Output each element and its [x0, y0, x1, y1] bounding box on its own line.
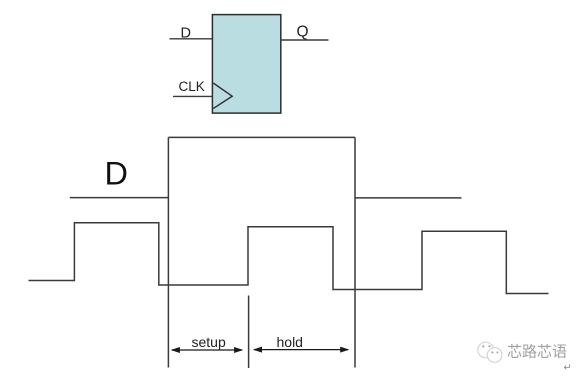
watermark logo (two chat bubbles) [478, 342, 502, 362]
wire D input [170, 38, 213, 40]
svg-text:Q: Q [297, 23, 309, 40]
wire CLK input [173, 95, 212, 97]
wire D waveform high [168, 136, 355, 138]
wire Q output [281, 39, 329, 41]
clock edge triangle on U1 [213, 83, 232, 109]
wire D waveform low right [355, 197, 462, 199]
svg-text:setup: setup [192, 334, 226, 350]
wire D waveform low left [70, 197, 169, 199]
hold dimension arrow [253, 347, 350, 353]
svg-text:D: D [105, 156, 128, 192]
svg-text:hold: hold [277, 334, 303, 350]
flip-flop U1 body [212, 15, 280, 114]
svg-text:CLK: CLK [179, 79, 205, 94]
node clock sampling edge marker [248, 296, 250, 369]
node hold boundary marker (D falling edge extended) [354, 137, 356, 367]
svg-text:D: D [181, 26, 191, 42]
node setup boundary marker (D rising edge extended) [167, 137, 169, 367]
svg-text:芯路芯语: 芯路芯语 [507, 344, 567, 361]
wire clock waveform [29, 223, 549, 294]
setup dimension arrow [171, 347, 244, 353]
svg-text:↵: ↵ [564, 363, 572, 374]
